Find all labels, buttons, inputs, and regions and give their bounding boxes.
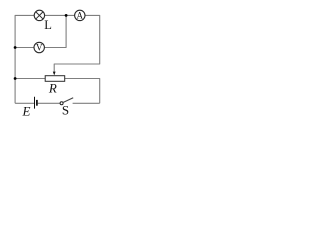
battery E short thick plate [36,100,38,106]
svg-text:S: S [62,102,69,117]
wire: voltmeter branch horizontal and vertical up to node A [15,15,66,47]
battery E long plate [34,97,36,109]
lamp L (circle with X) [34,10,44,20]
svg-text:E: E [22,104,31,119]
node dot left wire voltmeter junction [14,46,17,49]
wire: switch contact to bottom-right corner [73,102,100,104]
voltmeter V [34,42,44,52]
wire: bottom left to battery [15,102,34,104]
switch S pivot circle [60,102,63,105]
ammeter U A [75,10,85,20]
wire: rheostat row from left wire through R to right vertical down to bottom [15,79,100,104]
svg-text:V: V [36,43,43,53]
node dot left wire rheostat junction [14,77,17,80]
rheostat R body [45,76,64,82]
wire: left vertical + top wire + right vertical down to slider feed [15,15,100,103]
svg-text:L: L [44,18,52,32]
svg-text:A: A [77,11,84,21]
node dot top (lamp/ammeter/voltmeter junction) [65,14,68,17]
svg-text:R: R [48,81,57,96]
rheostat slider arrowhead [53,72,56,76]
switch S blade [63,98,73,103]
wire: battery to switch pivot [38,102,61,104]
